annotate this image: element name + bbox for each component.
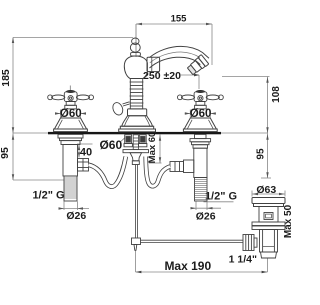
pop-up vertical rod [135, 165, 137, 239]
dimension Max 190 [136, 250, 268, 272]
left handle stem [65, 102, 77, 109]
left valve hose port [78, 159, 89, 172]
drain tailpiece [260, 230, 278, 259]
svg-text:1/2" G: 1/2" G [205, 191, 237, 203]
right escutcheon [183, 118, 217, 132]
dimension 40 [77, 144, 93, 158]
right valve hose port [170, 160, 194, 173]
right handle stem [195, 102, 207, 109]
flex hose left [89, 157, 126, 187]
svg-text:Ø63: Ø63 [256, 184, 276, 196]
dimension D60 right handle [185, 110, 216, 118]
dimension D26 left [59, 202, 90, 211]
dimension 95 left arrows [12, 134, 14, 180]
centerline column [135, 24, 137, 57]
svg-text:Ø26: Ø26 [196, 210, 216, 222]
column hub [124, 53, 159, 79]
svg-text:Max 190: Max 190 [164, 259, 211, 273]
svg-text:108: 108 [271, 86, 282, 103]
right handle cross arms [178, 95, 224, 100]
dimension 155 line [136, 24, 212, 65]
left valve below deck [58, 134, 83, 176]
svg-text:95: 95 [256, 148, 267, 160]
svg-text:Ø26: Ø26 [66, 210, 86, 222]
drain flange [252, 198, 285, 207]
rod joint block [132, 238, 141, 250]
spout tube [150, 46, 210, 68]
svg-text:1 1/4": 1 1/4" [229, 254, 257, 266]
rod clamp at drain [243, 235, 257, 251]
drain nut plates [252, 222, 285, 230]
dimension 95 left vertical line [13, 133, 64, 180]
dimension D60 left handle [55, 110, 86, 118]
center mounting studs [124, 135, 147, 147]
svg-text:Max 60: Max 60 [147, 132, 158, 164]
dimension 95 right arrows [266, 134, 268, 178]
dimension 155 arrows [136, 23, 212, 25]
column finial [130, 38, 140, 52]
svg-text:1/2" G: 1/2" G [32, 190, 64, 202]
right handle hub [194, 92, 207, 102]
left handle hub [64, 92, 77, 102]
column shaft rings [130, 79, 144, 109]
dimension D26 right [191, 202, 222, 211]
dimension Max 60 [149, 135, 162, 164]
left valve thread [64, 176, 77, 201]
spout nut [147, 57, 160, 71]
svg-text:Max 50: Max 50 [283, 204, 294, 238]
svg-text:Ø60: Ø60 [99, 138, 122, 152]
svg-text:185: 185 [0, 69, 12, 87]
dimension 185 arrows [12, 37, 14, 133]
center shank [133, 135, 138, 150]
right valve below deck [190, 134, 211, 177]
drain body [259, 207, 278, 223]
right handle cap [196, 90, 205, 93]
dimension 185 vertical line [13, 38, 133, 134]
dimension 108 line [221, 77, 270, 134]
pop-up knob lever [111, 101, 129, 116]
left handle stub centerline [69, 86, 71, 91]
svg-text:95: 95 [0, 147, 11, 159]
horizontal rod to drain [141, 240, 244, 242]
dimension 95 right line [261, 133, 271, 178]
spout aerator [186, 55, 208, 76]
column base bell [119, 109, 156, 132]
left escutcheon [54, 118, 88, 132]
dimension D63 [252, 191, 285, 197]
right valve thread [195, 178, 208, 202]
mounting bracket [123, 150, 149, 165]
deck plate [48, 132, 221, 134]
svg-text:40: 40 [80, 146, 92, 158]
dimension 108 arrows [266, 77, 268, 133]
left handle cap [66, 90, 75, 93]
left handle cross arms [48, 95, 94, 100]
flex hose right [146, 157, 170, 187]
svg-text:155: 155 [171, 14, 188, 25]
